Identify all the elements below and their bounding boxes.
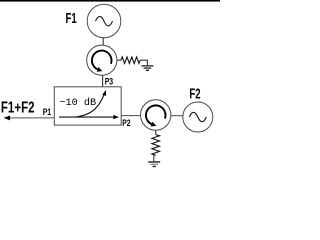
wire U1 to coupler P3: [102, 75, 104, 87]
output arrowhead: [4, 115, 11, 120]
svg-text:P1: P1: [43, 107, 52, 117]
svg-text:P2: P2: [122, 118, 131, 128]
svg-text:F1: F1: [66, 10, 77, 27]
source F2: [183, 102, 213, 132]
coupler box: [54, 87, 121, 125]
top frame line: [0, 0, 220, 2]
svg-text:F1+F2: F1+F2: [1, 98, 35, 116]
wire U1 to resistor R1: [117, 59, 121, 61]
wire U2 to resistor R2: [155, 130, 157, 134]
coupler through line arrow: [59, 115, 119, 119]
wire coupler P2 to circulator U2: [121, 115, 141, 117]
wire R2 to ground: [153, 155, 155, 161]
circulator U1: [87, 45, 117, 75]
ground (top right): [141, 66, 153, 70]
wire F1 to circulator U1: [102, 38, 104, 46]
svg-text:P3: P3: [105, 77, 114, 87]
svg-text:−10 dB: −10 dB: [59, 97, 96, 109]
source F1: [87, 4, 121, 38]
coupler coupled-path curve: [76, 90, 107, 117]
wire coupler P1 to output: [8, 117, 54, 119]
wire R1 to ground: [140, 60, 147, 65]
ground (bottom): [148, 162, 160, 167]
wire U2 to source F2: [171, 115, 183, 117]
circulator U2: [141, 100, 171, 130]
svg-text:F2: F2: [189, 86, 200, 103]
resistor R1: [121, 57, 140, 63]
resistor R2: [152, 135, 160, 156]
